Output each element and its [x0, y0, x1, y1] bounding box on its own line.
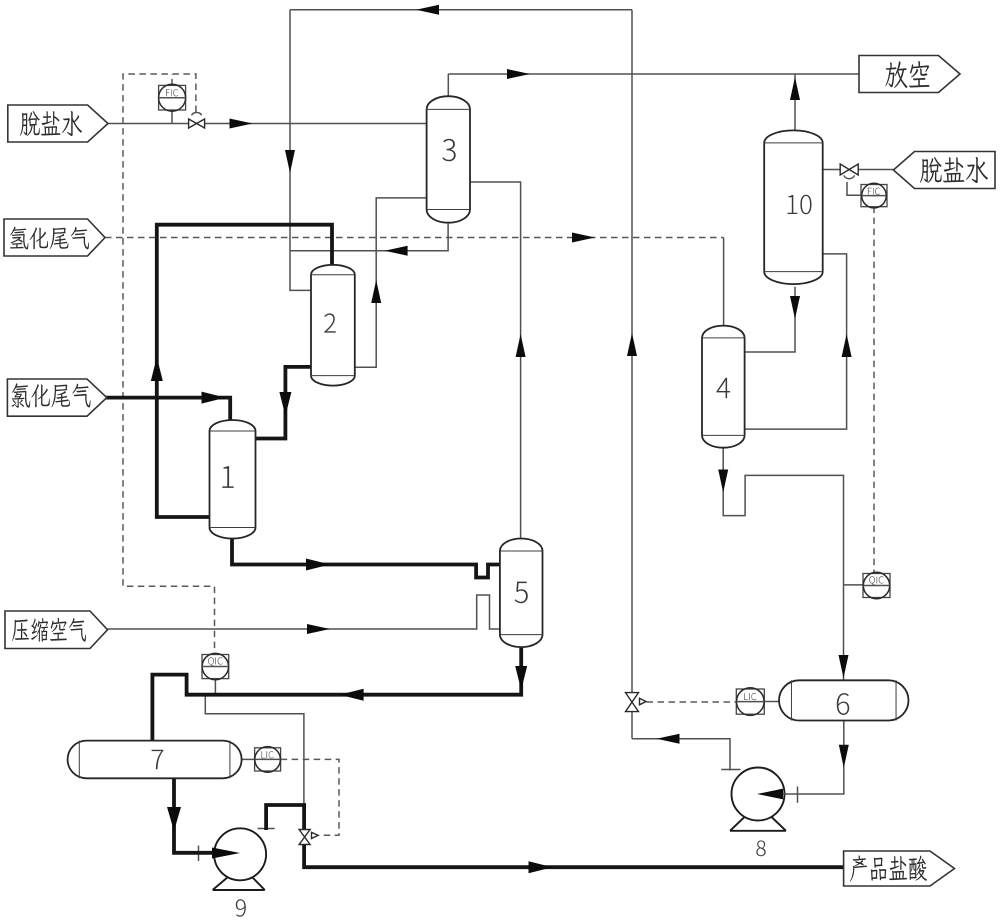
- arrow down on vessel 5 bottoms: [515, 666, 527, 690]
- wire LIC 7 signal to valve: [281, 759, 339, 835]
- wire main riser x=632: [631, 10, 633, 693]
- vessel 5: [500, 539, 543, 648]
- arrow left into pump 8: [770, 793, 786, 795]
- wire chlorination branch down to vessel 1 side: [157, 398, 210, 517]
- instrument FIC top-left: [159, 84, 186, 111]
- vessel 1: [210, 420, 256, 538]
- arrow right on hydrogenation tail gas line: [572, 233, 595, 243]
- control valve on desalted-water feed: [189, 112, 205, 128]
- wire top recycle header: [290, 9, 632, 11]
- pump 9: [213, 828, 267, 890]
- wire QIC left stem: [214, 679, 216, 694]
- instrument QIC right: [863, 572, 890, 598]
- arrow left on pump 8 recycle: [657, 734, 680, 744]
- wire hydrogenation tail gas dashed line: [105, 237, 724, 239]
- vessel 2: [311, 265, 355, 386]
- vessel 10: [764, 130, 823, 284]
- wire vessel 3 overhead: [447, 74, 449, 96]
- wire vessel 7 bottoms to pump 9: [174, 778, 213, 853]
- label compressed air: [5, 611, 108, 649]
- arrow down on vessel 10 bottoms: [790, 296, 800, 319]
- wire pump 9 discharge riser: [266, 805, 304, 830]
- wire chlorination branch riser to vessel 2: [157, 225, 332, 398]
- arrow down on vessel 4 bottoms: [718, 470, 728, 493]
- arrow right on chlorination feed: [202, 392, 226, 404]
- control valve on desalted-water right feed: [840, 164, 858, 179]
- wire vessel 10 side draw to riser: [745, 254, 847, 429]
- wire pump 8 discharge to recycle: [632, 739, 730, 771]
- wire FIC stem to pipe: [171, 110, 173, 123]
- wire valve actuator to FIC right: [847, 182, 861, 195]
- wire pump 9 suction tick: [198, 846, 200, 862]
- wire LIC to vessel 6: [764, 701, 779, 703]
- arrow left on vessel 3 bottoms: [385, 246, 408, 256]
- wire hydrogenation gas drop into vessel 4: [723, 238, 725, 326]
- wire vessel 3 side to vessel 5 riser: [469, 182, 520, 539]
- label hydrogenation tail gas: [4, 219, 105, 256]
- wire compressed air line to vessel 5: [108, 595, 500, 629]
- wire recycle down-leg into vessel 2: [290, 10, 311, 291]
- arrow up on vessel 4 to vessel 10 riser: [842, 334, 852, 357]
- control valve on recycle riser: [626, 693, 647, 712]
- label pump 8 number: [756, 840, 765, 856]
- instrument LIC vessel 7: [255, 747, 281, 773]
- wire vessel 6 bottoms to pump 8: [768, 721, 844, 795]
- label desalted water left: [8, 105, 108, 142]
- arrow down on vessel 7 bottoms: [167, 807, 181, 831]
- wire vessel 7 to LIC: [242, 758, 255, 760]
- pump 8: [730, 768, 786, 831]
- wire vessel 5 bottoms to vessel 7: [152, 647, 521, 741]
- arrow right on vessel 1 bottoms: [306, 559, 330, 571]
- wire chlorination tail gas to vessel 1: [105, 398, 230, 421]
- arrow right on vent header: [507, 69, 530, 79]
- label chlorination tail gas: [7, 379, 106, 416]
- wire pump 8 discharge tick: [721, 769, 740, 771]
- arrow down on recycle into vessel 2: [285, 150, 295, 173]
- wire QIC right tap: [844, 584, 864, 586]
- wire vessel 1 bottoms to vessel 5: [232, 539, 500, 578]
- wire LIC 6 signal to valve: [647, 701, 737, 703]
- wire vessel 10 overhead: [794, 74, 796, 131]
- vessel 6: [779, 680, 909, 720]
- arrow up on vessel 2 overhead: [371, 280, 381, 303]
- label vent: [859, 56, 960, 93]
- instrument LIC vessel 6: [736, 688, 764, 716]
- arrow left on top recycle header: [416, 5, 439, 15]
- instrument QIC left: [202, 653, 229, 679]
- wire desalted-water right feed: [823, 169, 894, 171]
- label desalted water right: [893, 152, 995, 189]
- arrow right on compressed air line: [307, 624, 330, 634]
- wire pump 9 bypass line: [205, 696, 304, 805]
- wire vessel 4 bottoms to vessel 6: [723, 447, 843, 680]
- wire FIC right to QIC right signal: [873, 207, 875, 574]
- arrow right into pump 9: [213, 851, 218, 855]
- wire riser below valve: [631, 712, 633, 739]
- control valve near pump 9: [299, 830, 318, 845]
- arrow up on vessel 10 overhead: [790, 77, 800, 100]
- arrow down into vessel 6: [839, 655, 849, 678]
- wire vessel 3 bottoms to vessel 2: [290, 224, 448, 251]
- wire vent header to flare: [448, 73, 859, 75]
- arrow right on product acid line: [529, 861, 553, 873]
- vessel 7: [68, 741, 242, 779]
- wire FIC signal loop left: [123, 74, 215, 655]
- arrow down on vessel 6 bottoms: [839, 745, 849, 768]
- wire vessel 10 bottoms to vessel 4: [745, 287, 795, 352]
- arrow up on chlorination branch: [151, 357, 163, 381]
- arrow on desalted-water feed: [230, 119, 253, 129]
- wire FIC box stub: [171, 74, 173, 85]
- wire pump 8 suction tick: [797, 787, 799, 803]
- arrow up on vessel 5 riser: [516, 334, 526, 357]
- vessel 3: [427, 96, 470, 222]
- arrow up on main riser: [627, 333, 637, 356]
- instrument FIC right: [861, 183, 887, 208]
- label pump 9 number: [236, 899, 246, 916]
- label product hydrochloric acid: [844, 851, 955, 886]
- wire product acid line: [304, 844, 844, 867]
- wire desalted-water feed to vessel 3: [105, 123, 427, 125]
- arrow left on vessel 5 bottoms to vessel 7: [340, 689, 364, 701]
- wire pump 9 discharge tick: [258, 828, 275, 830]
- vessel 4: [702, 326, 745, 448]
- wire vessel 2 bottoms to vessel 1: [256, 367, 312, 439]
- arrow down on vessel 2 bottoms: [279, 392, 291, 416]
- wire vessel 2 overhead to vessel 3: [355, 198, 427, 367]
